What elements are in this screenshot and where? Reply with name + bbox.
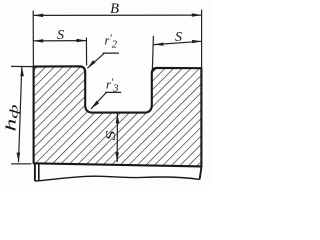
S right dimension line xyxy=(154,41,202,44)
r3 leader shelf xyxy=(105,91,121,93)
B arrow right xyxy=(192,13,202,16)
svg-text:r′2: r′2 xyxy=(105,32,118,50)
h arrow up xyxy=(20,67,24,77)
r3 leader line xyxy=(91,92,106,108)
S vertical dim line (web) xyxy=(116,114,118,163)
S right inner ext line xyxy=(152,36,153,69)
svg-text:hф: hф xyxy=(4,105,21,132)
r2 leader line xyxy=(87,53,104,68)
svg-text:B: B xyxy=(110,1,119,17)
wavy break line bottom xyxy=(35,176,200,181)
r2 leader shelf xyxy=(103,52,119,54)
S left inner ext line xyxy=(85,38,87,66)
B arrow left xyxy=(33,14,43,18)
S web arrow up xyxy=(116,114,120,124)
arrowheads xyxy=(17,13,202,162)
right lower edge xyxy=(200,166,202,179)
rim body section (hatched) with groove xyxy=(34,66,202,166)
r2 leader arrowhead xyxy=(87,60,95,68)
h ext top xyxy=(11,65,33,67)
svg-text:S: S xyxy=(103,130,118,140)
S left arrow L xyxy=(33,39,43,43)
ext line left (B / S) xyxy=(32,11,34,67)
S right arrow R xyxy=(192,40,202,43)
svg-text:S: S xyxy=(175,30,182,45)
B dimension line xyxy=(33,14,201,16)
S web arrow down xyxy=(115,152,119,162)
foot left outer edge xyxy=(34,164,36,181)
lower rim band (unsectioned, below) xyxy=(35,164,202,181)
foot right edge xyxy=(38,164,40,181)
S left arrow R xyxy=(77,39,87,43)
h arrow down xyxy=(17,153,21,163)
dimension and extension lines xyxy=(11,10,202,164)
S right arrow L xyxy=(154,43,164,46)
ext line right (B / S) xyxy=(201,10,203,69)
S left dimension line xyxy=(33,40,86,42)
r3 leader arrowhead xyxy=(91,101,99,109)
h ext bottom xyxy=(11,163,31,165)
h dim line xyxy=(19,67,22,163)
svg-text:S: S xyxy=(57,28,64,43)
